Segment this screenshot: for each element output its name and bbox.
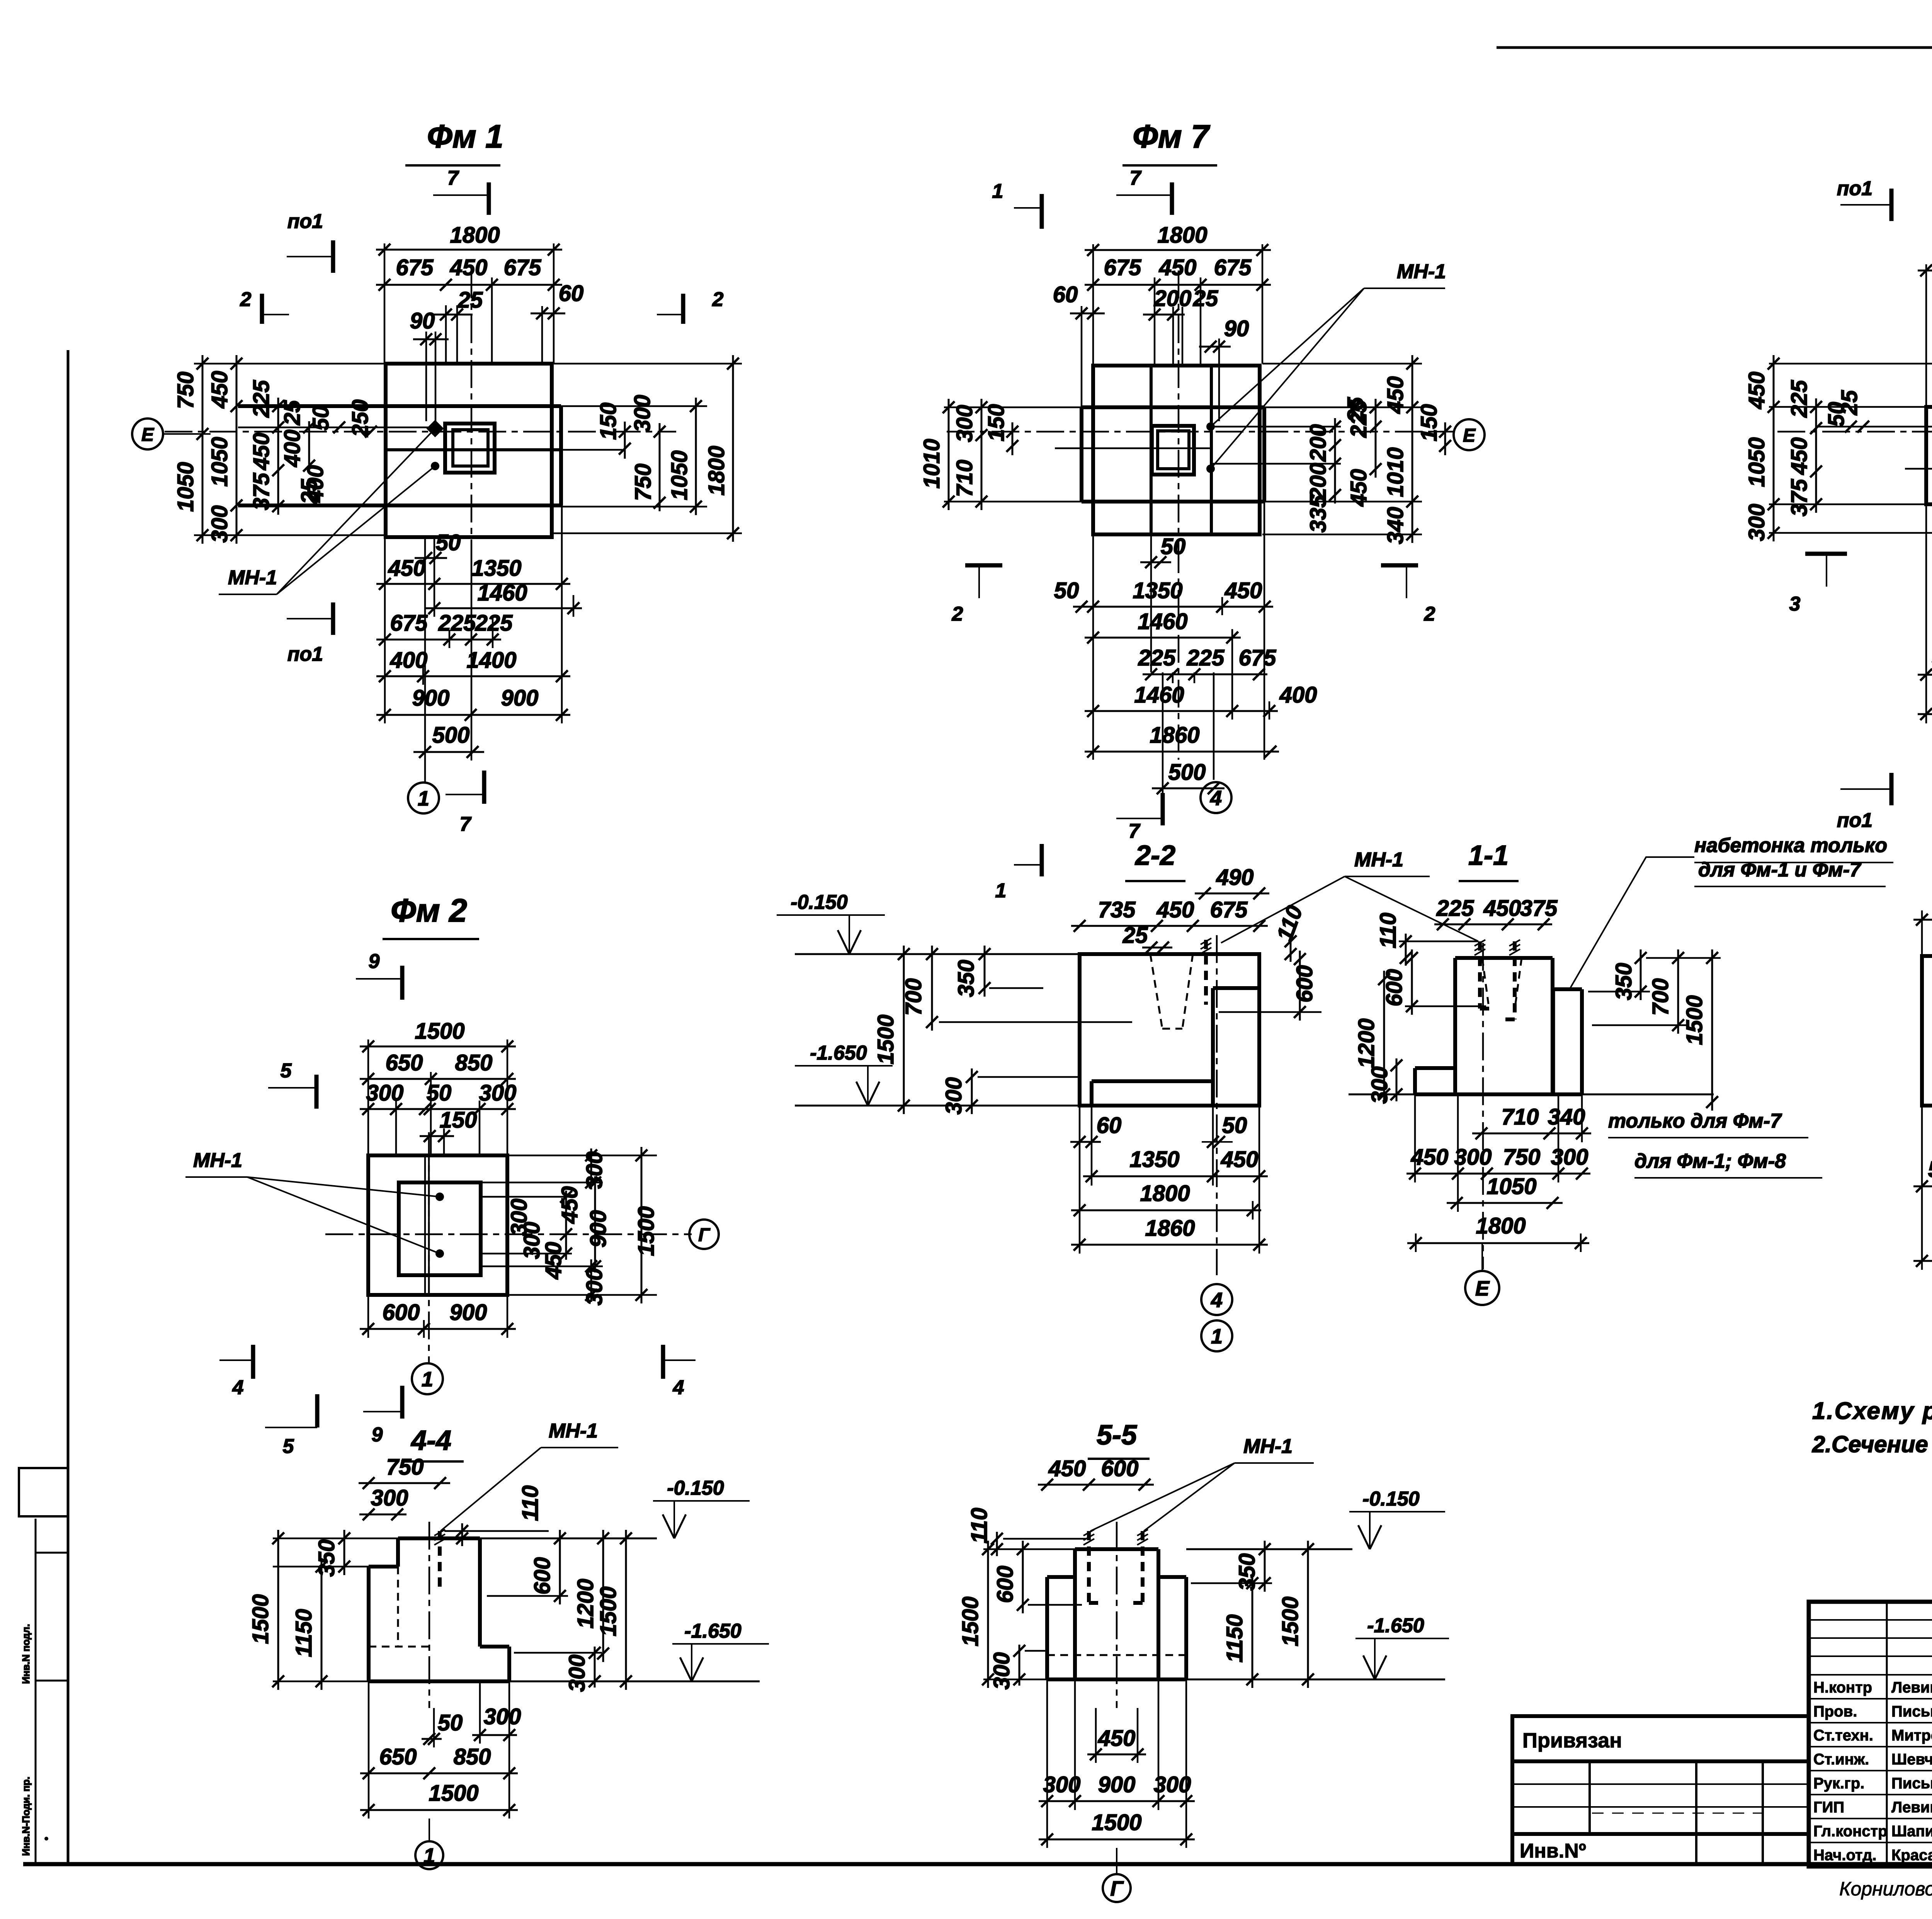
svg-text:1500: 1500 bbox=[248, 1594, 273, 1644]
svg-text:Левина: Левина bbox=[1891, 1799, 1932, 1816]
svg-text:только для Фм-7: только для Фм-7 bbox=[1608, 1110, 1782, 1132]
svg-text:300: 300 bbox=[565, 1655, 590, 1692]
svg-text:1050: 1050 bbox=[173, 462, 198, 512]
FM-2 right witness lines bbox=[507, 1155, 657, 1157]
section 1-1 bottom dims 450 300 750 300 bbox=[1406, 1173, 1590, 1175]
FM-8 left chain 450/1050/300 bbox=[1773, 355, 1775, 541]
svg-text:300: 300 bbox=[479, 1080, 517, 1106]
svg-text:300: 300 bbox=[366, 1080, 404, 1106]
svg-text:675: 675 bbox=[1210, 897, 1248, 922]
svg-text:Г: Г bbox=[1110, 1877, 1124, 1900]
section 2-2 top dims 735 450 675 bbox=[1071, 925, 1268, 927]
section 5-5 bottom dim 450 bbox=[1087, 1754, 1146, 1756]
svg-text:450: 450 bbox=[557, 1186, 582, 1224]
section 2-2 left chain 350 bbox=[984, 946, 986, 997]
section 5-5 anchor bolts dashed bbox=[1087, 1531, 1091, 1603]
svg-text:-1.650: -1.650 bbox=[810, 1042, 867, 1064]
left margin stamp box bbox=[19, 1468, 68, 1516]
section 2-2 socket dashed bbox=[1150, 954, 1162, 1029]
svg-text:1460: 1460 bbox=[477, 580, 527, 606]
svg-text:1200: 1200 bbox=[1354, 1018, 1379, 1068]
svg-text:Письман: Письман bbox=[1891, 1703, 1932, 1720]
svg-text:225: 225 bbox=[1187, 645, 1225, 670]
section 2-2 body outline bbox=[1080, 954, 1259, 1106]
svg-text:Корниловой Корникоо: Корниловой Корникоо bbox=[1839, 1878, 1932, 1900]
svg-text:300: 300 bbox=[941, 1077, 966, 1115]
svg-text:300: 300 bbox=[1367, 1067, 1392, 1104]
svg-text:300: 300 bbox=[582, 1268, 607, 1306]
section 1-1 bottom witness lines bbox=[1414, 1094, 1416, 1182]
svg-text:900: 900 bbox=[501, 686, 539, 711]
svg-text:225: 225 bbox=[475, 611, 513, 636]
FM-7 section mark 2 left bbox=[965, 563, 1002, 568]
svg-text:110: 110 bbox=[967, 1508, 992, 1543]
svg-text:Ст.техн.: Ст.техн. bbox=[1813, 1727, 1873, 1744]
svg-text:1500: 1500 bbox=[634, 1206, 659, 1256]
FM-8 bottom dims 1460 1460 bbox=[1918, 713, 1932, 715]
FM-1 bottom dims 400 1400 bbox=[376, 675, 570, 677]
FM-7 section mark 7 bottom bbox=[1161, 793, 1165, 825]
section 4-4 left chain 350 bbox=[344, 1530, 345, 1575]
svg-text:по1: по1 bbox=[287, 643, 323, 665]
FM-7 column socket inner bbox=[1158, 431, 1189, 469]
svg-text:500: 500 bbox=[1168, 760, 1206, 785]
svg-text:2.Сечение 7-7 см. лист 9; сеч: 2.Сечение 7-7 см. лист 9; сечение 9-9 см… bbox=[1812, 1431, 1932, 1457]
svg-text:335: 335 bbox=[1306, 495, 1331, 533]
svg-text:560: 560 bbox=[1928, 1157, 1932, 1182]
svg-text:650: 650 bbox=[386, 1050, 423, 1075]
FM-2 section mark 4 bottom-left bbox=[251, 1345, 255, 1379]
svg-text:50: 50 bbox=[308, 406, 333, 431]
section 4-4 right chain 1500 bbox=[625, 1530, 627, 1690]
FM-1 right chain 750 bbox=[659, 423, 661, 511]
FM-1 right chain 1050 bbox=[695, 398, 697, 515]
section 1-1 ground line bbox=[1349, 1094, 1714, 1096]
FM-7 center line horizontal bbox=[947, 431, 1454, 433]
section 1-1 top dims 225 450 375 bbox=[1434, 924, 1552, 925]
section 5-5 center line bbox=[1116, 1522, 1118, 1708]
svg-text:450: 450 bbox=[1483, 896, 1521, 921]
svg-text:600: 600 bbox=[1101, 1456, 1139, 1481]
section 2-2 left chain 300 bbox=[971, 1068, 973, 1114]
FM-1 top dims 675 450 675 bbox=[376, 284, 562, 286]
svg-text:450: 450 bbox=[1098, 1726, 1136, 1751]
section 1-1 left beam protrusion bbox=[1415, 1066, 1455, 1070]
svg-text:300: 300 bbox=[989, 1652, 1014, 1690]
svg-text:375: 375 bbox=[1520, 896, 1558, 921]
FM-8 center line horizontal bbox=[1777, 431, 1932, 433]
svg-text:350: 350 bbox=[954, 960, 979, 997]
svg-text:675: 675 bbox=[1239, 645, 1277, 670]
svg-text:25: 25 bbox=[1122, 923, 1148, 948]
section 1-1 body outline bbox=[1455, 956, 1553, 960]
FM-1 left dim chain 225/450/375 bbox=[277, 398, 279, 515]
svg-text:25: 25 bbox=[1193, 286, 1218, 311]
svg-text:450: 450 bbox=[450, 255, 488, 280]
FM-1 section mark 7 top bbox=[487, 182, 491, 215]
FM-7 anchor bolt dot MN-1 upper bbox=[1206, 422, 1215, 431]
FM-7 bottom dims 50 1350 450 bbox=[1073, 606, 1273, 608]
svg-text:2: 2 bbox=[1424, 603, 1435, 625]
svg-text:450: 450 bbox=[1159, 255, 1197, 280]
svg-text:25: 25 bbox=[1343, 397, 1368, 422]
section 4-4 dim 110 bbox=[461, 1523, 463, 1546]
FM-2 right chain 900 bbox=[594, 1176, 596, 1273]
svg-text:400: 400 bbox=[280, 430, 305, 468]
FM-2 anchor bolt dot MN-1 upper bbox=[435, 1193, 444, 1201]
FM-1 left dim chain 750/1050 bbox=[202, 355, 204, 544]
FM-2 section mark 5 bottom-left bbox=[315, 1394, 320, 1427]
svg-text:300: 300 bbox=[1551, 1145, 1588, 1170]
section 4-4 anchor bolt dashed bbox=[438, 1531, 442, 1592]
svg-text:50: 50 bbox=[1161, 534, 1186, 559]
svg-text:2: 2 bbox=[952, 603, 963, 625]
svg-text:110: 110 bbox=[1376, 913, 1401, 948]
svg-text:1500: 1500 bbox=[415, 1019, 464, 1044]
svg-text:200: 200 bbox=[1306, 424, 1331, 462]
svg-text:450: 450 bbox=[1225, 578, 1262, 603]
svg-text:60: 60 bbox=[1053, 282, 1078, 307]
svg-text:850: 850 bbox=[455, 1050, 493, 1075]
svg-text:675: 675 bbox=[396, 255, 434, 280]
FM-7 top dims 200 25 bbox=[1143, 314, 1185, 316]
svg-text:900: 900 bbox=[412, 686, 450, 711]
svg-text:25: 25 bbox=[280, 400, 305, 425]
svg-text:150: 150 bbox=[596, 403, 621, 440]
svg-text:400: 400 bbox=[1279, 682, 1317, 708]
svg-text:Инв.Nº: Инв.Nº bbox=[1520, 1840, 1586, 1862]
section 5-5 left chain 1500 bbox=[987, 1541, 989, 1688]
svg-text:1500: 1500 bbox=[1682, 995, 1707, 1045]
FM-8 top dim 2920 bbox=[1918, 270, 1932, 272]
FM-2 slab outline 1500x1500 bbox=[368, 1155, 507, 1295]
FM-7 top witness lines bbox=[1092, 244, 1094, 364]
FM-1 beam strip top edge bbox=[238, 404, 561, 408]
svg-text:4: 4 bbox=[673, 1376, 684, 1399]
svg-text:450: 450 bbox=[1744, 372, 1769, 410]
svg-text:1500: 1500 bbox=[873, 1014, 898, 1064]
svg-text:710: 710 bbox=[952, 460, 977, 497]
left margin column boxes bbox=[35, 1519, 37, 1864]
section 1-1 socket dashed bbox=[1482, 958, 1488, 1004]
section 5-5 left witness lines bbox=[983, 1548, 1075, 1550]
svg-text:300: 300 bbox=[1744, 504, 1769, 541]
svg-text:450: 450 bbox=[207, 371, 232, 409]
FM-7 section mark 1 bottom-left bbox=[1040, 844, 1044, 876]
section 4-4 bottom dims 50 300 bbox=[422, 1738, 442, 1740]
svg-text:300: 300 bbox=[1454, 1145, 1492, 1170]
svg-text:675: 675 bbox=[1214, 255, 1252, 280]
svg-text:750: 750 bbox=[631, 464, 656, 501]
section 5-5 bottom dim 1500 bbox=[1039, 1839, 1195, 1841]
svg-text:Пров.: Пров. bbox=[1813, 1703, 1857, 1720]
FM-1 bottom dims 450 1350 bbox=[376, 583, 570, 585]
section 4-4 hidden dashed lines bbox=[397, 1567, 399, 1647]
FM-8 top witness lines bbox=[1925, 264, 1927, 407]
FM-7 column socket outer bbox=[1152, 426, 1194, 475]
svg-text:500: 500 bbox=[432, 723, 470, 748]
section 2-2 left chain 1500 bbox=[903, 946, 905, 1114]
section 4-4 axis circle 1 bbox=[415, 1841, 443, 1869]
section 3-3 top dims 1460 1460 bbox=[1913, 919, 1932, 921]
svg-text:1800: 1800 bbox=[450, 223, 500, 248]
section 4-4 top dim 750 bbox=[359, 1482, 450, 1484]
svg-text:набетонка только: набетонка только bbox=[1694, 834, 1887, 857]
svg-text:Е: Е bbox=[141, 425, 155, 445]
section 4-4 left chain 1150 bbox=[321, 1558, 323, 1690]
section 5-5 hidden dashed line bbox=[1047, 1654, 1186, 1656]
section 2-2 left chain 700 bbox=[931, 946, 933, 1031]
section 4-4 center line bbox=[429, 1522, 430, 1708]
FM-7 anchor bolt dot MN-1 lower bbox=[1206, 464, 1215, 473]
svg-text:МН-1: МН-1 bbox=[549, 1420, 598, 1442]
svg-text:225: 225 bbox=[1436, 896, 1475, 921]
svg-text:450: 450 bbox=[388, 556, 426, 581]
svg-text:4-4: 4-4 bbox=[410, 1425, 451, 1456]
svg-text:400: 400 bbox=[390, 648, 428, 673]
FM-7 section mark 1 top-left bbox=[1040, 194, 1044, 229]
svg-text:4: 4 bbox=[1211, 1288, 1223, 1312]
FM-7 bottom witness lines bbox=[1092, 534, 1094, 760]
svg-text:для Фм-1; Фм-8: для Фм-1; Фм-8 bbox=[1634, 1150, 1786, 1172]
svg-text:1800: 1800 bbox=[1157, 223, 1207, 248]
svg-text:2: 2 bbox=[240, 288, 252, 311]
section 3-3 bottom witness lines bbox=[1921, 1106, 1923, 1270]
svg-text:по1: по1 bbox=[1837, 177, 1872, 200]
svg-text:490: 490 bbox=[1216, 865, 1254, 890]
privyazan grid bbox=[1588, 1761, 1591, 1834]
sheet frame left border bbox=[67, 350, 70, 1864]
svg-text:110: 110 bbox=[518, 1485, 543, 1521]
svg-text:450: 450 bbox=[1411, 1145, 1449, 1170]
section 1-1 left chain 600 bbox=[1411, 949, 1413, 1015]
svg-text:340: 340 bbox=[1548, 1104, 1585, 1130]
FM-1 anchor bolt dot MN-1 bbox=[431, 462, 439, 470]
svg-text:1500: 1500 bbox=[596, 1586, 621, 1636]
FM-1 section mark 2 right bbox=[681, 294, 685, 324]
svg-text:710: 710 bbox=[1502, 1104, 1539, 1130]
FM-8 left chain 225/450/375 bbox=[1815, 398, 1817, 513]
section 5-5 left chain 300 bbox=[1019, 1645, 1020, 1686]
FM-2 section mark 4 bottom-right bbox=[661, 1345, 665, 1379]
FM-7 top dims 675 450 675 bbox=[1085, 284, 1271, 286]
section 1-1 left chain 300 bbox=[1396, 1058, 1398, 1101]
FM-1 bottom dims 900 900 bbox=[376, 714, 570, 716]
FM-7 bottom dim 1460 bbox=[1085, 637, 1241, 639]
FM-2 section mark 9 bottom bbox=[400, 1386, 405, 1419]
svg-text:700: 700 bbox=[1648, 978, 1673, 1016]
section 4-4 right chain 300 bbox=[594, 1647, 596, 1688]
svg-text:по1: по1 bbox=[287, 210, 323, 233]
section 5-5 right chain 1500 bbox=[1307, 1541, 1309, 1688]
svg-text:600: 600 bbox=[993, 1566, 1018, 1603]
FM-7 right chain 450/1010/340 bbox=[1412, 355, 1413, 543]
svg-text:1800: 1800 bbox=[1140, 1181, 1190, 1206]
FM-1 top dim 60 bbox=[531, 313, 565, 315]
section 2-2 bottom slab step bbox=[1092, 1079, 1213, 1083]
section 2-2 bottom dims 1350 450 bbox=[1083, 1176, 1268, 1177]
svg-text:1: 1 bbox=[992, 180, 1003, 202]
FM-1 beam strip bottom edge bbox=[238, 504, 561, 507]
FM-1 center line horizontal bbox=[165, 431, 676, 433]
FM-1 right chain 1800 bbox=[732, 355, 734, 542]
section 2-2 bottom dims 60 50 bbox=[1070, 1141, 1101, 1143]
svg-text:150: 150 bbox=[440, 1108, 477, 1133]
svg-text:300: 300 bbox=[207, 505, 232, 543]
svg-text:450: 450 bbox=[1383, 376, 1408, 414]
svg-text:450: 450 bbox=[541, 1242, 566, 1280]
svg-text:1: 1 bbox=[995, 880, 1007, 902]
svg-text:25: 25 bbox=[457, 288, 483, 313]
section 2-2 anchor bolt dashed bbox=[1204, 940, 1208, 1005]
svg-text:9: 9 bbox=[372, 1424, 383, 1446]
svg-text:1460: 1460 bbox=[1134, 682, 1184, 708]
svg-text:50: 50 bbox=[1222, 1113, 1247, 1138]
svg-text:ГИП: ГИП bbox=[1813, 1799, 1844, 1816]
svg-text:МН-1: МН-1 bbox=[1354, 849, 1403, 871]
svg-text:7: 7 bbox=[447, 167, 459, 189]
FM-1 top dim 1800 bbox=[376, 249, 562, 251]
FM-7 top dim 60 bbox=[1070, 313, 1105, 315]
svg-text:Гл.констр: Гл.констр bbox=[1813, 1823, 1888, 1840]
svg-text:50: 50 bbox=[1054, 578, 1079, 603]
privyazan table outer bbox=[1512, 1716, 1809, 1864]
section 2-2 bottom witness lines bbox=[1079, 1106, 1081, 1254]
section 4-4 top dim 300 bbox=[359, 1514, 406, 1516]
svg-text:1500: 1500 bbox=[429, 1781, 478, 1806]
svg-text:300: 300 bbox=[371, 1485, 408, 1511]
svg-text:350: 350 bbox=[1611, 963, 1636, 1000]
svg-text:350: 350 bbox=[1235, 1553, 1260, 1591]
nabetonka leader bbox=[1570, 857, 1694, 989]
FM-2 axis circle 1 bbox=[412, 1363, 443, 1394]
FM-1 slab outline 1800x1800 bbox=[386, 364, 552, 537]
section 4-4 left witness lines bbox=[273, 1538, 398, 1540]
svg-text:Е: Е bbox=[1475, 1277, 1490, 1300]
section 5-5 bottom dims 300 900 300 bbox=[1039, 1800, 1195, 1802]
svg-text:1150: 1150 bbox=[1222, 1614, 1247, 1663]
svg-text:450: 450 bbox=[1048, 1456, 1086, 1481]
FM-7 left chain 1010 bbox=[948, 399, 950, 510]
FM-1 beam strip right end bbox=[559, 406, 563, 505]
svg-text:750: 750 bbox=[173, 372, 198, 409]
FM-8 bottom witness lines bbox=[1925, 504, 1927, 723]
FM-7 right chain 200/200/335 bbox=[1334, 418, 1336, 504]
svg-text:Митрофанова: Митрофанова bbox=[1891, 1727, 1932, 1744]
svg-text:2: 2 bbox=[712, 288, 724, 311]
svg-text:675: 675 bbox=[390, 611, 428, 636]
svg-text:25: 25 bbox=[1837, 390, 1862, 415]
FM-7 bottom dim 500 bbox=[1152, 788, 1225, 789]
svg-text:150: 150 bbox=[984, 404, 1009, 442]
privyazan header row bbox=[1512, 1759, 1809, 1763]
svg-text:600: 600 bbox=[1382, 969, 1407, 1007]
FM-7 right dim 150 bbox=[1444, 422, 1446, 455]
svg-text:1350: 1350 bbox=[1129, 1147, 1179, 1172]
FM-7 bottom dims 1460 400 bbox=[1085, 710, 1278, 712]
section 5-5 right chain 1150 bbox=[1252, 1575, 1253, 1688]
svg-text:-1.650: -1.650 bbox=[1367, 1614, 1424, 1637]
FM-2 anchor bolt dot MN-1 lower bbox=[435, 1249, 444, 1258]
svg-text:1200: 1200 bbox=[573, 1579, 598, 1628]
svg-text:225: 225 bbox=[438, 611, 476, 636]
FM-2 center line horizontal bbox=[325, 1233, 692, 1235]
section 1-1 axis circle E bbox=[1465, 1271, 1499, 1305]
FM-7 axis E circle bbox=[1454, 419, 1485, 450]
svg-text:Е: Е bbox=[1463, 425, 1476, 446]
FM-2 center line vertical bbox=[428, 1132, 430, 1364]
svg-text:600: 600 bbox=[1292, 965, 1317, 1003]
FM-2 axis G circle bbox=[689, 1220, 719, 1249]
FM-7 right chain 225/450 bbox=[1375, 399, 1377, 478]
FM-2 right chain 300 bbox=[590, 1148, 592, 1189]
section 4-4 left chain 1500 bbox=[277, 1530, 279, 1690]
FM-7 axis circle 4 bbox=[1201, 782, 1231, 813]
svg-text:375: 375 bbox=[1787, 479, 1812, 517]
svg-text:Фм 7: Фм 7 bbox=[1133, 118, 1210, 155]
FM-2 section mark 9 top bbox=[400, 966, 405, 1000]
FM-1 column socket inner bbox=[453, 430, 488, 466]
svg-text:225: 225 bbox=[1138, 645, 1176, 670]
section 1-1 bottom dims 710 340 bbox=[1472, 1133, 1591, 1135]
FM-8 left witness lines bbox=[1769, 363, 1932, 365]
section 5-5 slab outline bbox=[1047, 1575, 1075, 1579]
FM-1 bottom dim 1460 bbox=[426, 607, 582, 609]
FM-7 section mark 7 top bbox=[1170, 182, 1174, 215]
title block outer frame bbox=[1809, 1602, 1932, 1866]
section 4-4 bottom witness lines bbox=[368, 1681, 370, 1819]
FM-7 left witness lines bbox=[944, 407, 1082, 408]
section 2-2 right dim 600 bbox=[1299, 951, 1301, 1021]
section 5-5 top dims 450 600 bbox=[1038, 1484, 1154, 1486]
FM-2 top dims 300 50 300 bbox=[360, 1108, 516, 1110]
svg-text:1400: 1400 bbox=[466, 648, 516, 673]
svg-text:225: 225 bbox=[1787, 380, 1812, 418]
svg-text:9: 9 bbox=[369, 950, 380, 973]
svg-text:1050: 1050 bbox=[667, 450, 692, 500]
svg-text:200: 200 bbox=[1306, 463, 1331, 501]
svg-text:900: 900 bbox=[1098, 1772, 1136, 1797]
FM-1 wall bottom edge bbox=[386, 448, 561, 451]
svg-text:Ст.инж.: Ст.инж. bbox=[1813, 1751, 1869, 1768]
section 3-3 top witness lines bbox=[1921, 910, 1923, 956]
FM-1 section mark 2 left bbox=[260, 294, 264, 324]
svg-text:150: 150 bbox=[1417, 404, 1442, 442]
FM-7 slab outline 1800x1800 bbox=[1093, 366, 1260, 534]
sheet frame top border bbox=[1497, 46, 1932, 49]
FM-1 column socket outer bbox=[445, 424, 495, 473]
svg-text:1050: 1050 bbox=[1486, 1174, 1536, 1199]
svg-text:МН-1: МН-1 bbox=[1243, 1435, 1293, 1458]
FM-7 center line vertical bbox=[1178, 270, 1180, 545]
svg-text:-0.150: -0.150 bbox=[791, 891, 848, 914]
svg-text:90: 90 bbox=[410, 308, 435, 333]
section 4-4 bottom dims 650 850 bbox=[360, 1773, 518, 1774]
FM-2 right chain 1500 bbox=[641, 1147, 643, 1303]
section 5-5 right chain 350 bbox=[1264, 1541, 1266, 1592]
FM-8 section mark po1 top-left bbox=[1889, 189, 1894, 221]
svg-text:Шевченко: Шевченко bbox=[1891, 1751, 1932, 1768]
FM-1 bottom dim 50 bbox=[415, 557, 447, 559]
svg-text:3: 3 bbox=[1789, 593, 1801, 615]
FM-2 bottom witness lines bbox=[367, 1295, 369, 1338]
svg-text:1010: 1010 bbox=[919, 439, 944, 488]
section 3-3 body outline bbox=[1922, 956, 1932, 1106]
svg-text:1500: 1500 bbox=[1092, 1810, 1141, 1835]
FM-1 bolt axis line bbox=[561, 449, 622, 451]
svg-text:4: 4 bbox=[1210, 786, 1222, 810]
FM-2 top dims 650 850 bbox=[360, 1078, 516, 1080]
